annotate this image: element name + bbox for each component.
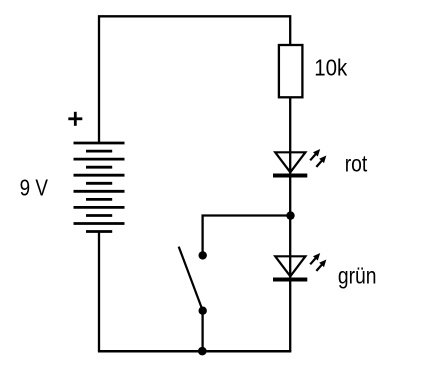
svg-text:rot: rot: [345, 152, 368, 177]
svg-text:10k: 10k: [314, 54, 347, 80]
svg-text:grün: grün: [338, 264, 377, 289]
svg-text:9 V: 9 V: [20, 176, 48, 201]
